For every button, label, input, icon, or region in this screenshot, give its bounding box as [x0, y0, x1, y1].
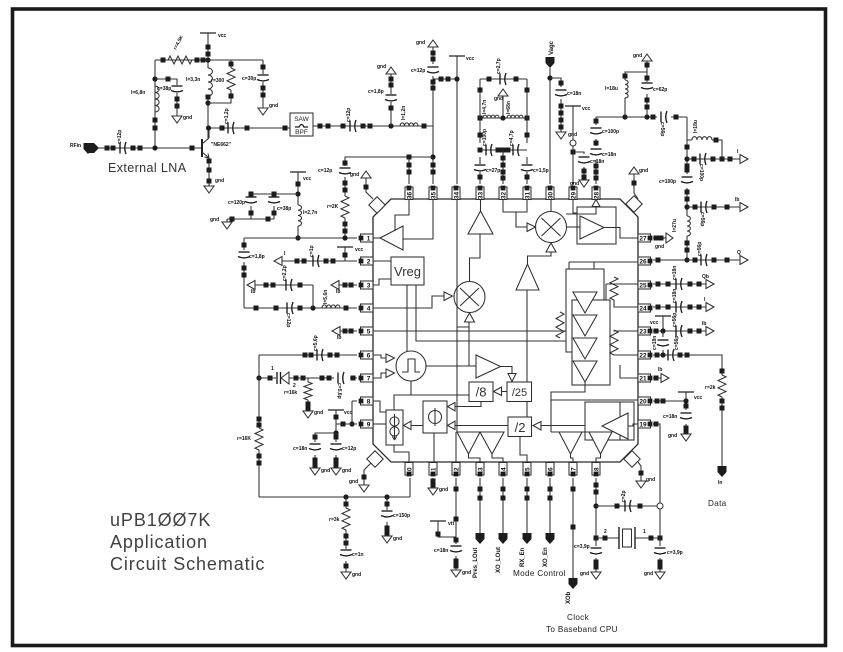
ground C29	[681, 434, 691, 441]
resistor Rf2 internal	[610, 330, 618, 355]
junctions pin27 row	[654, 236, 659, 241]
svg-text:XO_En: XO_En	[543, 547, 549, 567]
node pin9 caps	[333, 430, 338, 435]
svg-text:XOb: XOb	[566, 591, 572, 604]
node r300 join	[205, 100, 210, 105]
inductor L10 l=5.6n	[322, 305, 340, 308]
wire c18n branch pin9	[315, 433, 336, 468]
wire pin3 stub	[339, 284, 357, 286]
junctions x433 col	[431, 51, 436, 56]
ground C14	[556, 132, 566, 139]
svg-text:r=2k: r=2k	[705, 385, 716, 391]
wire PD to charge pump	[411, 425, 423, 427]
capacitor C16 c=100p	[591, 127, 602, 129]
svg-text:31: 31	[524, 192, 531, 200]
wire pin23 row	[653, 330, 706, 332]
svg-text:r=16K: r=16K	[237, 436, 251, 442]
svg-text:c=18n: c=18n	[663, 414, 677, 420]
capacitor C31 c=38p	[269, 196, 280, 198]
inductor L3 l=1.2n	[400, 123, 418, 126]
pulse shaper X1 circle	[396, 351, 426, 381]
wire LNA left branch	[154, 60, 156, 148]
svg-text:c=18n: c=18n	[602, 152, 616, 158]
svg-text:uPB1ØØ7K: uPB1ØØ7K	[110, 510, 211, 530]
input arrow into M2	[527, 223, 536, 232]
wire B3 to pin17	[571, 454, 574, 463]
svg-text:l=4,7n: l=4,7n	[482, 100, 488, 114]
svg-text:6: 6	[367, 352, 371, 359]
wire B4 to pin18	[596, 454, 601, 463]
capacitor C19 c=56p	[660, 112, 662, 123]
wire match mid rail	[480, 117, 527, 119]
capacitor C8 c=12p	[340, 167, 351, 169]
resistor R4 r=2k	[718, 375, 726, 397]
ground C41	[382, 536, 392, 543]
inductor L2 l=6.8n	[155, 86, 159, 112]
svg-text:c=3,9p: c=3,9p	[667, 550, 683, 556]
junctions pin31 col	[525, 88, 530, 93]
buffer B2 (pin14)	[480, 432, 504, 454]
svg-text:24: 24	[639, 305, 647, 312]
wire left loop	[258, 378, 260, 497]
wire vcc to pin29	[572, 106, 574, 184]
svg-text:l=2,7n: l=2,7n	[303, 210, 317, 216]
svg-text:c=56p: c=56p	[672, 313, 678, 327]
junction BR stub	[639, 471, 644, 476]
node rail pin1	[295, 235, 300, 240]
node Vagc branch	[547, 75, 552, 80]
svg-text:gnd: gnd	[210, 217, 219, 223]
junctions pin22 row	[655, 353, 660, 358]
capacitor C32 c=1.8p	[239, 251, 250, 253]
svg-text:32: 32	[500, 192, 507, 200]
wire pin4 to M1	[373, 296, 444, 308]
op-amp A5 enclosure	[577, 207, 616, 244]
svg-text:c=38p: c=38p	[157, 86, 171, 92]
capacitor C3 c=12p	[119, 143, 121, 154]
svg-text:34: 34	[453, 192, 460, 200]
inductor L7 l=18u	[692, 137, 712, 140]
wire BR corner gnd stub	[638, 462, 641, 481]
junctions match top	[487, 77, 492, 82]
wire match top rail	[480, 78, 527, 80]
op-amp A6 (VCO buffer)	[602, 413, 628, 439]
resistor R1 r=4.5K	[168, 56, 192, 64]
svg-text:/25: /25	[512, 387, 527, 399]
wire M1 LO vertical	[468, 322, 470, 366]
svg-text:gnd: gnd	[393, 536, 402, 542]
junctions c30p	[261, 65, 266, 70]
svg-text:gnd: gnd	[655, 244, 664, 250]
inductor L1 l=3.3n	[208, 68, 212, 96]
supply vcc pin23	[655, 315, 671, 317]
svg-text:SAW: SAW	[294, 116, 309, 123]
svg-text:Data: Data	[708, 499, 727, 508]
junctions pin33 col	[478, 88, 483, 93]
ground C15	[579, 180, 589, 187]
wire row285	[247, 284, 313, 286]
svg-text:16: 16	[547, 467, 554, 475]
svg-text:gnd: gnd	[352, 572, 361, 578]
terminal RFin flag shape	[88, 143, 99, 153]
svg-text:2: 2	[367, 258, 371, 265]
wire r2k column	[721, 368, 723, 466]
ground C39	[331, 468, 341, 475]
capacitor C22 c=56p	[700, 202, 702, 213]
arrow into PD upper	[448, 403, 456, 412]
junctions xtal right	[658, 560, 663, 565]
svg-text:gnd: gnd	[183, 115, 192, 121]
wire pin36 to A1 input	[395, 199, 409, 231]
terminal Data flag	[718, 466, 727, 477]
junction vcc rail stub	[296, 182, 301, 187]
svg-text:c=100p: c=100p	[482, 129, 488, 146]
wire A4 to M2	[528, 252, 552, 264]
svg-text:c=12p: c=12p	[411, 68, 425, 74]
wire r300 branch	[208, 60, 231, 103]
terminal out7	[661, 374, 669, 383]
wire gnd top right	[646, 61, 648, 72]
capacitor C21 c=100p	[699, 154, 701, 165]
svg-text:35: 35	[430, 192, 437, 200]
op-amp A4 (LO buffer)	[516, 264, 539, 290]
capacitor C2 c=38p	[172, 85, 183, 87]
wire M1 out to A2	[470, 234, 481, 282]
ground C1	[258, 108, 268, 115]
wire Vreg leg B to bus	[416, 285, 566, 341]
wire pin36 column	[408, 157, 410, 184]
supply vcc pin34	[449, 55, 465, 57]
junctions pin32 col	[501, 156, 506, 161]
ground pin11	[428, 488, 438, 495]
wire pin8 to CP	[373, 401, 386, 412]
svg-text:c=3,9p: c=3,9p	[574, 544, 590, 550]
svg-text:In: In	[718, 480, 722, 486]
svg-text:gnd: gnd	[668, 433, 677, 439]
svg-text:c=62p: c=62p	[653, 87, 667, 93]
capacitor C44 c=3.9p	[591, 547, 602, 549]
junction collector rail	[206, 95, 211, 100]
svg-text:Circuit Schematic: Circuit Schematic	[110, 554, 265, 574]
wire c150p column	[386, 497, 388, 536]
terminal out1	[740, 155, 748, 164]
svg-text:c=27p: c=27p	[486, 168, 500, 174]
wire A5 to pin27	[604, 228, 638, 239]
svg-text:c=18n: c=18n	[567, 91, 581, 97]
charge pump CP box	[386, 410, 403, 445]
varactor diode D1	[277, 372, 281, 384]
wire C6 branch up	[390, 74, 392, 126]
wire pin11 stub	[432, 478, 434, 488]
wire X1 out to /8	[394, 381, 469, 412]
junction gnd tr	[645, 63, 650, 68]
svg-text:gnd: gnd	[633, 53, 642, 59]
junctions xtal left	[594, 536, 599, 541]
ground xtal right	[655, 572, 665, 579]
svg-text:c=56p: c=56p	[674, 336, 680, 350]
svg-text:14: 14	[500, 467, 507, 475]
junctions c150p col	[385, 502, 390, 507]
svg-text:Qb: Qb	[702, 274, 709, 280]
terminal XOb	[569, 578, 578, 589]
wire pin17 column	[572, 478, 574, 578]
wire pin28 column	[595, 117, 597, 184]
svg-text:c=12p: c=12p	[285, 313, 291, 327]
wire Rf1 to pin24	[614, 300, 638, 307]
wire pin1 row	[244, 237, 357, 239]
pin 20	[638, 397, 651, 405]
junctions pin6 row	[303, 353, 308, 358]
pin 24	[638, 304, 651, 312]
svg-text:c=5,6p: c=5,6p	[313, 335, 319, 351]
node base join	[152, 145, 157, 150]
wire /2 bottom to pin15	[520, 437, 527, 464]
wire x687 column	[686, 117, 688, 260]
svg-text:r=2K: r=2K	[327, 204, 339, 210]
ground C2	[172, 116, 182, 123]
node vcc pin34	[454, 76, 459, 81]
junctions BPF out	[318, 124, 323, 129]
capacitor C26 c=56p	[675, 326, 677, 337]
svg-text:Ib: Ib	[336, 289, 340, 295]
junctions x345	[343, 161, 348, 166]
junctions pin25 row	[656, 282, 661, 287]
ground C40	[341, 572, 351, 579]
svg-text:12: 12	[453, 467, 460, 475]
svg-text:l=27u: l=27u	[672, 219, 678, 232]
node c150p	[384, 494, 389, 499]
IC corner index mark bottom-left	[367, 451, 383, 467]
svg-text:gnd: gnd	[416, 40, 425, 46]
wire pin5 internal bus	[373, 330, 566, 332]
wire stack to pin26	[569, 262, 638, 269]
wire A6 input from pin19	[628, 424, 638, 426]
svg-text:Ib: Ib	[702, 321, 706, 327]
resistor R3 r=2K	[341, 196, 349, 218]
wire xtal branch right	[659, 509, 661, 572]
svg-text:c=56p: c=56p	[659, 122, 665, 136]
wire stack to pin21	[620, 365, 638, 378]
wire x433 column	[432, 47, 434, 184]
svg-text:c=12p: c=12p	[318, 168, 332, 174]
svg-text:Application: Application	[110, 532, 208, 552]
pin 32	[499, 187, 507, 200]
capacitor C34 c=1p	[312, 256, 314, 267]
resistor R2 r=300	[227, 68, 235, 90]
IF strip enclosure A	[566, 269, 604, 352]
wire pin34 internal rail	[457, 199, 469, 432]
wire pin7 row b	[289, 377, 357, 379]
svg-text:3: 3	[367, 282, 371, 289]
svg-text:c=5,6p: c=5,6p	[336, 383, 342, 399]
ground C38	[310, 468, 320, 475]
pin 3	[361, 281, 374, 289]
wire pin20 cap branch	[685, 392, 687, 434]
junctions r3k col	[344, 502, 349, 507]
svg-text:c=56p: c=56p	[699, 212, 705, 226]
svg-text:gnd: gnd	[215, 178, 224, 184]
node rail C18	[644, 114, 649, 119]
node rail157 join	[430, 154, 435, 159]
ground C7	[428, 40, 438, 47]
wire pin9 row	[336, 410, 357, 433]
junctions pin13	[478, 487, 483, 492]
wire pin25 row	[653, 283, 706, 285]
pin 5	[361, 327, 374, 335]
junctions rail y117	[651, 115, 656, 120]
IC corner index mark bottom-right	[624, 451, 640, 467]
wire LNA output row	[208, 127, 290, 129]
svg-text:7: 7	[367, 375, 371, 382]
svg-text:9: 9	[367, 421, 371, 428]
pin 11	[429, 463, 437, 476]
svg-text:gnd: gnd	[494, 96, 503, 102]
wire B1 to pin13	[469, 454, 481, 463]
node LNA bias	[205, 57, 210, 62]
svg-text:c=100p: c=100p	[602, 129, 619, 135]
svg-text:25: 25	[639, 282, 647, 289]
connector circle pin29	[570, 140, 576, 146]
terminal out5	[706, 303, 714, 312]
capacitor C35 c=2.2p	[285, 280, 287, 291]
wire pin12 column	[455, 478, 457, 570]
wire pin4 row	[244, 307, 357, 309]
supply vcc pin9	[328, 409, 344, 411]
junctions row207	[693, 205, 698, 210]
wire row285 link	[312, 285, 314, 308]
mixer M1	[454, 282, 485, 313]
svg-text:2: 2	[293, 383, 296, 389]
svg-text:Pres_LOut: Pres_LOut	[473, 548, 479, 578]
pin 4	[361, 304, 374, 312]
wire pin13 stub	[479, 478, 481, 533]
svg-text:vcc: vcc	[466, 56, 475, 62]
svg-text:RFin: RFin	[70, 143, 81, 149]
ground decoupling	[222, 222, 232, 229]
junctions pin19 row	[654, 422, 659, 427]
arrow into X1 lower	[386, 369, 395, 378]
wire pin7 row	[259, 377, 276, 379]
svg-text:c=2p: c=2p	[621, 490, 627, 502]
svg-text:l=6,8n: l=6,8n	[131, 90, 145, 96]
wire pin33 column	[479, 79, 481, 184]
svg-text:vcc: vcc	[355, 247, 364, 253]
pin 17	[569, 463, 577, 476]
pin 6	[361, 351, 374, 359]
wire decoupling row	[251, 193, 298, 195]
svg-text:r=16k: r=16k	[284, 390, 297, 396]
junctions pin7 row a	[268, 376, 273, 381]
wire row159	[687, 158, 740, 160]
svg-text:c=100p: c=100p	[698, 164, 704, 181]
ground top right	[642, 54, 652, 61]
arrow pin28 internal	[592, 200, 600, 207]
wire /2 to phase det	[455, 425, 508, 427]
supply vcc LNA	[200, 32, 216, 34]
svg-text:gnd: gnd	[570, 181, 579, 187]
wire pin27 row	[653, 237, 666, 239]
wire TR corner gnd stub	[634, 174, 638, 199]
capacitor C25 c=18n	[675, 302, 677, 313]
junctions pin24 row	[656, 305, 661, 310]
svg-text:15: 15	[524, 467, 531, 475]
svg-text:vcc: vcc	[303, 176, 312, 182]
svg-text:Ib: Ib	[658, 367, 662, 373]
terminal out3	[740, 256, 748, 265]
junctions pin28 col	[594, 119, 599, 124]
limiter stage L3	[573, 338, 597, 359]
junctions dec gnd	[249, 211, 254, 216]
svg-text:r=3k: r=3k	[329, 517, 340, 523]
svg-text:gnd: gnd	[644, 571, 653, 577]
wire A3 to /25	[501, 367, 513, 374]
wire LNA top rail	[155, 59, 263, 61]
wire xtal branch left	[595, 540, 597, 572]
svg-text:Vagc: Vagc	[549, 40, 555, 55]
junctions LNA out	[220, 126, 225, 131]
op-amp A2 (to pin 33)	[468, 211, 493, 234]
svg-text:RX_En: RX_En	[520, 547, 526, 567]
wire pin29 internal stub	[573, 199, 577, 213]
junctions pin2 row	[295, 259, 300, 264]
junctions L7	[714, 138, 719, 143]
svg-text:29: 29	[570, 192, 577, 200]
svg-text:l=18u: l=18u	[693, 120, 699, 133]
wire decoupling gnd row	[227, 206, 274, 222]
capacitor C20 c=100p	[682, 176, 693, 178]
wire xtal row	[596, 537, 660, 539]
capacitor C10 c=100p	[485, 145, 487, 156]
svg-text:2: 2	[604, 529, 607, 535]
terminal out6	[706, 327, 714, 336]
junctions c18p col	[242, 243, 247, 248]
svg-text:c=2,7p: c=2,7p	[496, 58, 502, 74]
svg-text:26: 26	[639, 258, 647, 265]
junctions pin14	[501, 487, 506, 492]
junctions row285	[264, 283, 269, 288]
node pin1 r2k	[342, 235, 347, 240]
wire PD to pin11	[433, 433, 435, 463]
wire stack down to buffers	[551, 382, 585, 432]
terminal RX_En	[523, 533, 532, 544]
wire pin2 to Vreg	[373, 260, 391, 262]
junctions LNA top rail	[161, 58, 166, 63]
node L2 top	[152, 76, 157, 81]
wire BL corner gnd stub	[364, 463, 371, 485]
pin 33	[476, 187, 484, 200]
terminal Vagc	[546, 57, 555, 68]
pin 13	[476, 463, 484, 476]
junctions pin9 row	[334, 415, 339, 420]
wire c30p branch	[262, 60, 264, 108]
junctions C15	[582, 169, 587, 174]
pin 7	[361, 374, 374, 382]
junctions pin17	[571, 487, 576, 492]
wire r3k column	[345, 497, 347, 572]
pin 14	[499, 463, 507, 476]
junctions Vagc branch	[559, 81, 564, 86]
limiter stage L4	[573, 361, 597, 382]
svg-text:c=30p: c=30p	[242, 76, 256, 82]
wire vcc rail pin1	[297, 172, 299, 238]
svg-text:gnd: gnd	[639, 168, 648, 174]
capacitor C41 c=150p	[382, 510, 393, 512]
pin 19	[638, 420, 651, 428]
wire pin9 to CP	[373, 423, 386, 425]
junctions y79	[439, 77, 444, 82]
node pin22 C27	[660, 352, 665, 357]
pin 18	[592, 463, 600, 476]
